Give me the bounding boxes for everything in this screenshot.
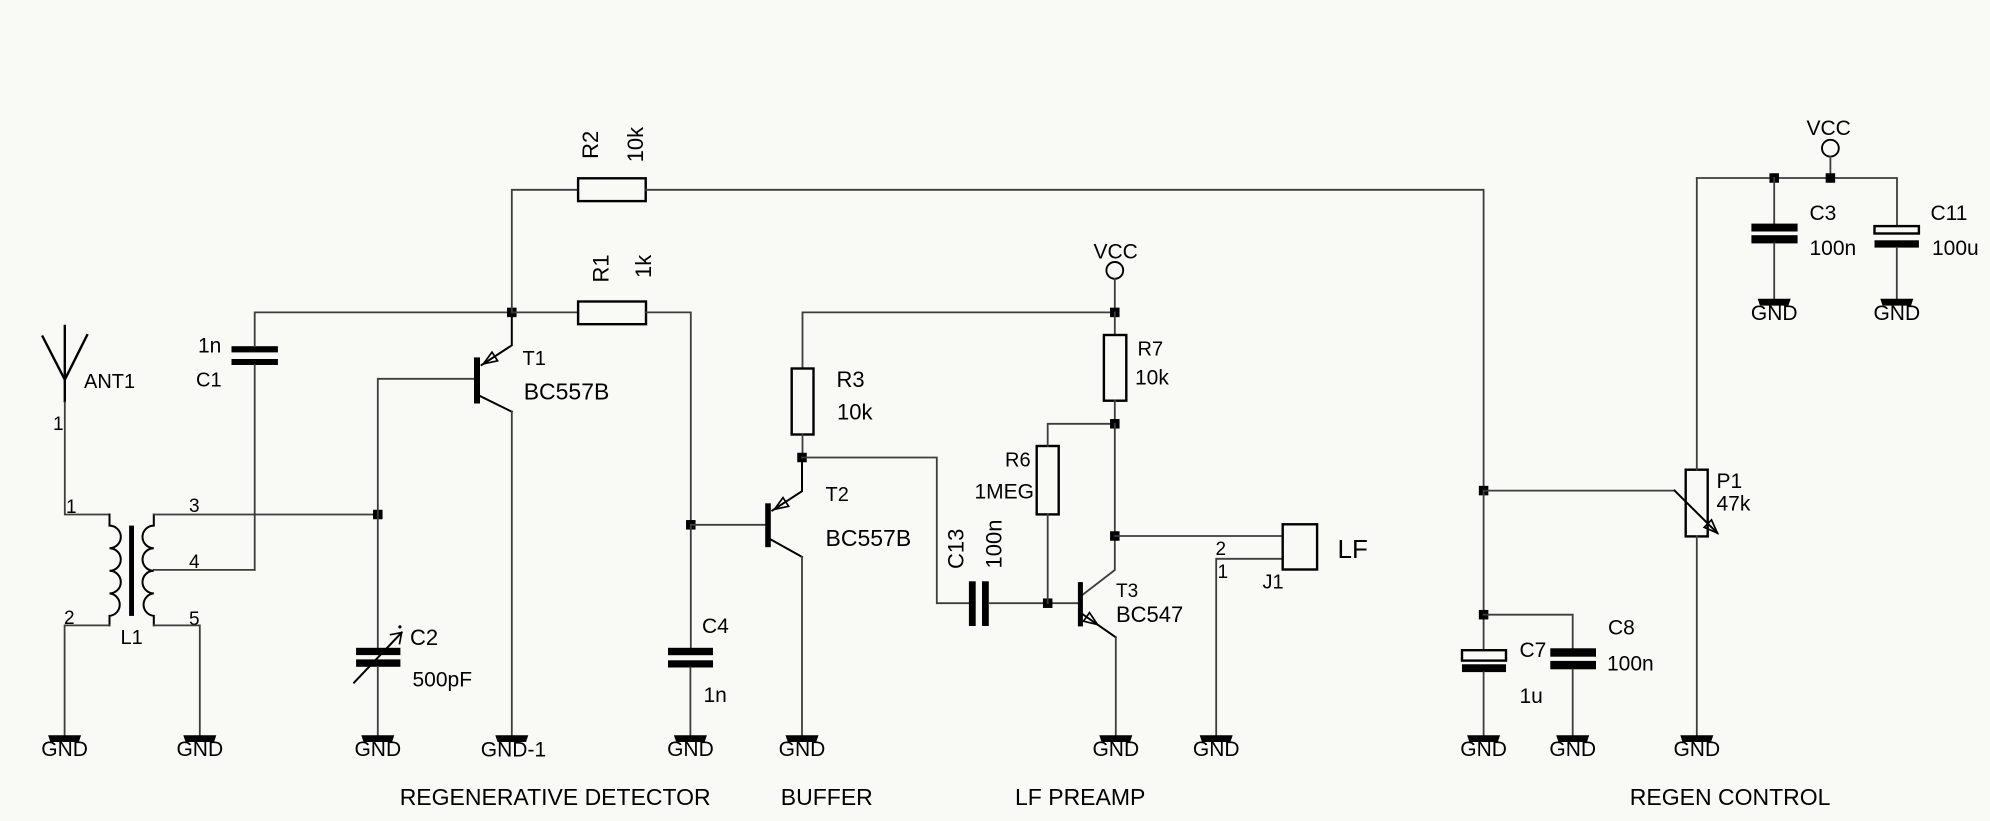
transformer L1 [110, 515, 154, 650]
svg-text:GND-1: GND-1 [481, 739, 546, 762]
resistor R3 [792, 367, 874, 435]
wire junction down to C4 [690, 525, 692, 648]
svg-text:C8: C8 [1608, 617, 1635, 640]
wire T2 emitter junction to C13 [802, 458, 969, 604]
capacitor C1 [196, 335, 278, 392]
ground at J1 pin 1 [1193, 735, 1240, 761]
svg-text:100n: 100n [1810, 237, 1857, 260]
wire VCC to R7 [1114, 312, 1116, 335]
capacitor C7 (polarized 1u) [1462, 639, 1546, 708]
svg-text:REGEN CONTROL: REGEN CONTROL [1630, 784, 1831, 810]
capacitor C13 [944, 520, 1007, 626]
svg-text:500pF: 500pF [413, 669, 473, 692]
ground at P1 [1673, 735, 1720, 761]
J1 pin number 2 [1216, 539, 1227, 560]
resistor R7 [1104, 335, 1169, 401]
ground at C2 [354, 735, 401, 761]
svg-text:C11: C11 [1931, 202, 1968, 225]
resistor R6 [975, 446, 1059, 514]
wire R3 bottom [802, 435, 804, 458]
wire C3 top [1773, 178, 1775, 224]
svg-text:100n: 100n [982, 520, 1007, 569]
node VCC rail junction right [1826, 173, 1836, 183]
svg-text:LF PREAMP: LF PREAMP [1015, 784, 1145, 810]
potentiometer P1 [1675, 470, 1751, 537]
svg-text:T3: T3 [1116, 581, 1138, 602]
svg-text:BC547: BC547 [1116, 602, 1183, 627]
svg-text:BUFFER: BUFFER [781, 784, 873, 810]
ground at L1 pin 5 [176, 735, 223, 761]
wire C13 to T3 base [989, 602, 1078, 604]
svg-text:R7: R7 [1138, 339, 1164, 361]
wire T2 collector to ground [801, 557, 803, 735]
connector J1 LF [1263, 524, 1368, 593]
wire VCC to rail [1114, 279, 1116, 313]
ground at C7 [1460, 735, 1507, 761]
power VCC top right [1807, 117, 1851, 157]
ground at L1 pin 2 [41, 735, 88, 761]
svg-text:GND: GND [1873, 302, 1920, 325]
label REGENERATIVE DETECTOR [400, 784, 711, 810]
node T2 emitter junction [797, 453, 807, 463]
wire L1 pin 4 to C1 [154, 569, 255, 571]
svg-text:C3: C3 [1810, 202, 1837, 225]
resistor R1 [578, 254, 656, 324]
wire C7 to ground [1483, 672, 1485, 735]
svg-text:GND: GND [176, 738, 223, 761]
node tank junction [373, 510, 383, 520]
svg-text:10k: 10k [837, 400, 873, 425]
capacitor C8 [1550, 617, 1653, 676]
L1 pin number 3 [189, 496, 200, 517]
L1 pin number 5 [189, 609, 200, 630]
wire junction to T1 base [378, 379, 474, 515]
svg-text:GND: GND [1092, 738, 1139, 761]
wire C1 bottom to L1 pin 4 [254, 365, 256, 570]
svg-text:VCC: VCC [1807, 117, 1851, 140]
node VCC rail junction [1110, 308, 1120, 318]
transistor T2 [765, 458, 911, 557]
antenna ANT1 [42, 325, 135, 435]
svg-text:1: 1 [66, 497, 77, 518]
capacitor C11 (polarized 100u) [1875, 202, 1979, 260]
wire R3 top rail [803, 312, 1115, 368]
L1 pin number 1 [66, 497, 77, 518]
wire R2 left [512, 190, 578, 313]
svg-text:100u: 100u [1932, 237, 1979, 260]
transistor T1 [474, 312, 609, 411]
wire C3 to ground [1773, 243, 1775, 298]
svg-text:R6: R6 [1005, 450, 1031, 472]
svg-text:1n: 1n [198, 335, 221, 358]
svg-text:100n: 100n [1607, 653, 1654, 676]
wire L1 pin 5 to ground [154, 625, 200, 735]
svg-text:R3: R3 [837, 367, 865, 392]
svg-text:C7: C7 [1520, 639, 1547, 662]
wire wiper to P1 [1484, 490, 1675, 492]
svg-text:T2: T2 [826, 484, 849, 506]
capacitor C3 [1751, 202, 1856, 260]
wire R7 bottom [1114, 401, 1116, 424]
node T2 base junction [686, 520, 696, 530]
ground at C11 [1873, 299, 1920, 325]
J1 pin number 1 [1218, 562, 1229, 583]
svg-text:GND: GND [1460, 738, 1507, 761]
node C7 C8 junction [1479, 610, 1489, 620]
wire regen net down [1483, 491, 1485, 650]
ground GND-1 at T1 collector [481, 735, 546, 762]
wire junction to T3 collector [1083, 424, 1115, 595]
node T3 base junction [1043, 598, 1053, 608]
wire C1 top to base net [255, 312, 512, 346]
label LF PREAMP [1015, 784, 1145, 810]
svg-text:1u: 1u [1520, 685, 1543, 708]
svg-text:GND: GND [779, 738, 826, 761]
svg-text:BC557B: BC557B [524, 379, 610, 405]
wire R1 left [512, 311, 578, 313]
svg-text:1: 1 [1218, 562, 1229, 583]
wire VCC rail [1697, 178, 1897, 225]
wire L1 pin 3 tank net [154, 514, 378, 516]
ground at C3 [1751, 299, 1798, 325]
wire R2 right to regen net [646, 190, 1484, 491]
wire C8 to ground [1572, 669, 1574, 735]
svg-text:GND: GND [1549, 738, 1596, 761]
wire VCC stub [1829, 157, 1831, 178]
transistor T3 [1078, 581, 1183, 637]
svg-text:REGENERATIVE DETECTOR: REGENERATIVE DETECTOR [400, 784, 711, 810]
svg-text:1: 1 [53, 414, 64, 435]
wire T3 emitter to ground [1115, 637, 1117, 735]
ground at T2 collector [779, 735, 826, 761]
svg-text:L1: L1 [121, 627, 143, 649]
svg-text:BC557B: BC557B [826, 525, 912, 551]
L1 pin number 2 [64, 608, 75, 629]
svg-text:GND: GND [1673, 738, 1720, 761]
wire junction to C8 [1484, 615, 1573, 649]
wire J1 pin 2 [1115, 535, 1283, 537]
svg-text:VCC: VCC [1094, 241, 1138, 264]
node T1 emitter junction [507, 308, 517, 318]
wire P1 top to VCC rail [1696, 178, 1698, 470]
svg-text:10k: 10k [623, 126, 648, 162]
label REGEN CONTROL [1630, 784, 1831, 810]
wire P1 bottom to ground [1696, 536, 1698, 735]
capacitor C2 (variable 500pF) [354, 625, 472, 692]
power VCC at R7 [1094, 241, 1138, 279]
wire L1 pin 2 to ground [65, 625, 110, 735]
wire C4 to ground [689, 668, 691, 736]
svg-text:P1: P1 [1717, 470, 1743, 493]
svg-text:47k: 47k [1717, 493, 1751, 516]
svg-text:J1: J1 [1263, 572, 1284, 594]
svg-text:C13: C13 [944, 529, 969, 569]
svg-text:10k: 10k [1135, 367, 1169, 390]
wire junction down to C2 [377, 515, 379, 648]
wire C2 to ground [377, 667, 379, 735]
svg-text:T1: T1 [523, 348, 546, 370]
node wiper junction [1479, 486, 1489, 496]
svg-text:1MEG: 1MEG [975, 481, 1035, 504]
svg-text:LF: LF [1338, 534, 1368, 564]
svg-text:GND: GND [1193, 738, 1240, 761]
ground at C8 [1549, 735, 1596, 761]
L1 pin number 4 [189, 552, 200, 573]
wire J1 pin 1 to ground [1216, 559, 1283, 735]
wire R6 top to R7 net [1048, 424, 1115, 446]
svg-text:1k: 1k [631, 254, 656, 278]
svg-text:ANT1: ANT1 [84, 371, 135, 393]
svg-text:GND: GND [354, 738, 401, 761]
wire C11 to ground [1896, 248, 1898, 299]
resistor R2 [578, 126, 648, 201]
wire T2 base [691, 524, 765, 526]
node T3 collector junction [1110, 531, 1120, 541]
svg-text:C1: C1 [196, 370, 222, 392]
svg-text:R1: R1 [589, 254, 614, 282]
svg-text:5: 5 [189, 609, 200, 630]
svg-text:C2: C2 [410, 625, 438, 650]
wire T1 collector to GND-1 [511, 412, 513, 736]
svg-text:1n: 1n [704, 684, 727, 707]
capacitor C4 [668, 615, 729, 707]
wire antenna to L1 pin 1 [65, 402, 110, 514]
svg-text:GND: GND [41, 738, 88, 761]
svg-text:2: 2 [1216, 539, 1227, 560]
ground at T3 emitter [1092, 735, 1139, 761]
svg-text:R2: R2 [578, 131, 603, 159]
wire R1 right to T2 base net [646, 312, 691, 524]
svg-text:C4: C4 [702, 615, 729, 638]
ground at C4 [667, 735, 714, 761]
node C3 rail junction [1769, 173, 1779, 183]
wire R6 bottom [1047, 514, 1049, 603]
node R7 bottom junction [1110, 419, 1120, 429]
svg-text:GND: GND [1751, 302, 1798, 325]
svg-text:GND: GND [667, 738, 714, 761]
label BUFFER [781, 784, 873, 810]
